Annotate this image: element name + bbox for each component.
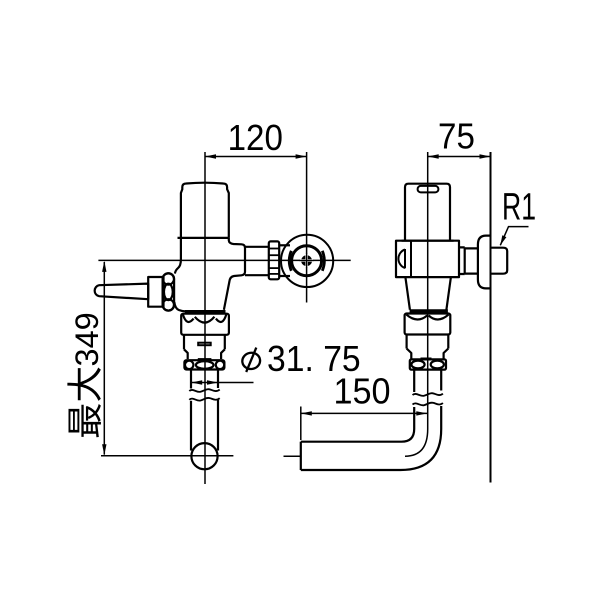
dimension 75 line [428, 156, 491, 158]
side pipe break squiggle upper [413, 393, 443, 396]
front view center line [204, 152, 206, 484]
svg-text:120: 120 [228, 119, 283, 159]
side view center line with elbow arc [405, 152, 428, 456]
side pipe left wall upper [413, 370, 415, 392]
R1 leader line [500, 227, 528, 246]
spud nut scallop left [183, 314, 194, 322]
side bottom nut [410, 359, 446, 369]
dimension max349 vertical line [103, 262, 105, 455]
side body block [396, 241, 459, 277]
barrel left crescent [289, 251, 291, 271]
barrel right crescent [322, 251, 324, 271]
dimension 120 right arrow [296, 154, 307, 158]
side handle socket boss line [404, 249, 406, 268]
svg-text:150: 150 [333, 372, 390, 412]
side handle socket boss arc [398, 250, 405, 269]
front pipe break squiggle upper [189, 389, 219, 392]
bottom nut [184, 360, 224, 369]
dimension 75 left arrow [428, 154, 439, 158]
side spud band [410, 309, 448, 312]
front body left edge upper [175, 238, 181, 274]
dimension 120 line [205, 156, 307, 158]
handle lever [95, 284, 149, 300]
outlet pipe top [245, 246, 269, 248]
bottom nut left circle [185, 361, 193, 369]
side pipe right wall upper [440, 370, 442, 391]
max349 top arrow [102, 261, 106, 272]
ball joint middle ellipse [164, 284, 173, 300]
side taper to bottom nut [407, 349, 412, 360]
vacuum breaker body sides [183, 335, 185, 350]
dimension 150 right arrow [416, 411, 427, 415]
max349 bottom arrow [102, 444, 106, 455]
side valve cap [405, 184, 450, 241]
dimension 150 line [301, 412, 428, 414]
ball joint bottom circle [163, 299, 174, 310]
front pipe right wall [217, 370, 219, 389]
side taper right [446, 277, 451, 310]
side pipe right wall lower and elbow outer [301, 406, 441, 470]
svg-text:75: 75 [438, 117, 475, 157]
side taper left [405, 277, 410, 310]
vacuum breaker slot [198, 343, 211, 346]
phi dim left arrow [191, 380, 202, 384]
side bottom nut left ellipse [411, 361, 424, 369]
side outlet stub segment 1 [459, 247, 465, 274]
outlet pipe bottom [245, 274, 269, 276]
side nut scallop left [406, 315, 427, 320]
front body left edge lower [174, 302, 185, 311]
phi 31.75 label [241, 348, 261, 372]
wall flange barrel circle [292, 246, 322, 276]
bottom extension line / pipe end center line [101, 455, 233, 457]
front cap shoulder [178, 237, 229, 239]
svg-text:R1: R1 [502, 185, 536, 228]
side body inner line [410, 241, 412, 277]
bottom nut middle ellipse [196, 361, 214, 369]
side bottom nut right ellipse [431, 361, 444, 369]
spud band [185, 310, 226, 313]
vacuum breaker taper [184, 349, 188, 359]
spud nut scallop right [216, 314, 226, 322]
pipe open end cap [300, 442, 302, 470]
small band above bottom nut [198, 358, 212, 361]
front body right edge with outlet boss [224, 238, 245, 310]
dimension 120 left arrow [205, 154, 216, 158]
side nut scallop right [429, 315, 449, 320]
stub between nut and wall flange [279, 244, 290, 246]
handle ball joint capsule [163, 273, 175, 310]
spud nut scallop middle [195, 317, 215, 323]
side pipe left wall lower and elbow inner [301, 407, 414, 442]
side cap shoulder [402, 240, 454, 242]
dimension 75 right arrow [480, 154, 491, 158]
side pipe end center line stub [284, 455, 302, 457]
wall flange (side) [478, 236, 491, 289]
wall flange outer circle [281, 235, 333, 287]
side pipe break squiggle lower [413, 403, 443, 406]
dimension phi 31.75 line [191, 382, 253, 384]
extension line / circle center vertical [306, 152, 308, 303]
ball joint top circle [163, 273, 174, 284]
handle base block [148, 277, 163, 307]
R1 leader arrowhead [500, 235, 506, 245]
R1 escutcheon through wall [491, 248, 507, 274]
front pipe break squiggle lower [189, 398, 219, 401]
coupling nut ridges [269, 249, 279, 274]
coupling nut [269, 241, 279, 279]
dimension 150 extension line [300, 407, 302, 441]
side cap oval detail [418, 186, 439, 193]
bottom nut right circle [216, 361, 224, 369]
side vacuum breaker sides [406, 335, 408, 349]
phi dim right arrow [207, 380, 218, 384]
front view horizontal center line (outlet axis) [98, 259, 350, 261]
dimension 150 left arrow [301, 411, 312, 415]
front pipe left wall [190, 370, 192, 389]
side small band [421, 357, 432, 360]
front valve cap [181, 183, 229, 238]
svg-text:349: 349 [69, 312, 105, 366]
side outlet stub segment 2 [465, 248, 478, 273]
pipe end circle [191, 443, 217, 469]
center screw dot [301, 255, 312, 266]
max349 rotated label [67, 312, 105, 437]
spud union nut [181, 314, 229, 335]
side union nut [405, 314, 451, 335]
wall line [490, 152, 492, 483]
